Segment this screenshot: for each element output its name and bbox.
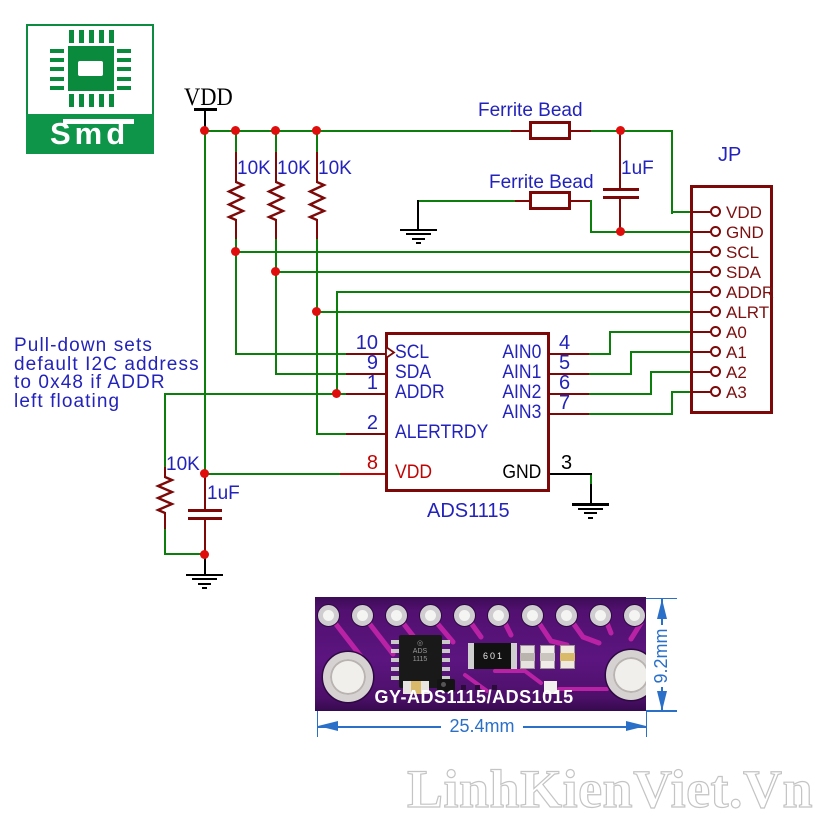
wire ALRT row to JP [316,311,691,313]
pcb traces [315,597,646,711]
JP pin A0 [693,331,711,333]
JP pin A1 [693,351,711,353]
pin holes row [318,605,339,626]
passive 2 [540,645,555,669]
junction dots [200,126,209,135]
main IC [391,640,400,644]
wire GND row to JP [590,231,691,233]
IC pin stubs right [550,353,589,355]
ground GND3 (IC gnd) [572,503,609,506]
wire AIN3 to A3 [589,413,673,415]
wire ADDR row to JP [336,291,691,293]
wire ADDR down to IC [336,291,338,395]
wire SDA row to JP [275,271,691,273]
label 10K R2 [277,159,311,178]
resistor R1 10K (SCL pullup) [235,130,237,154]
chip pins bottom [69,94,74,107]
wire AIN0 to A0 [589,353,611,355]
dimension 9.2mm [646,598,677,600]
PCB module photo [315,597,646,711]
silkscreen [375,688,591,707]
chip pins left [50,49,64,53]
JP pin ALRT [693,311,711,313]
resistor R3 10K (ALRT pullup) [316,130,318,154]
wire VDD drop to JP [671,130,673,214]
mounting hole left [323,652,373,702]
wire VDD pin JP horizontal [671,211,712,213]
connector JP [718,145,741,165]
wire ADDR left to pulldown [164,393,337,395]
IC pin stubs left [346,353,385,355]
VDD power symbol [184,85,233,110]
small black part [437,679,455,692]
wire AIN2 to A2 [589,393,652,395]
wire SDA down to IC [275,271,277,375]
note text [14,337,200,411]
dimension 25.4mm [317,711,319,737]
small dark dots [461,685,466,690]
IC pin names [395,343,429,363]
wire VDD pin8 row [204,473,342,475]
label 10K R4 [166,455,200,474]
JP pin SCL [693,251,711,253]
JP pin A2 [693,371,711,373]
JP pin A3 [693,391,711,393]
watermark [407,758,813,820]
GND pin stub black [550,473,592,475]
capacitor C2 1uF [207,484,240,503]
JP pin SDA [693,271,711,273]
small white parts under IC [403,681,429,694]
JP pin VDD [693,211,711,213]
wire VDD long vertical to pin8 row [204,130,206,475]
wire AIN1 to A1 [589,373,632,375]
wire SCL down to IC [235,251,237,355]
Smd wordmark [50,118,140,152]
wire VDD rail left [204,130,512,132]
wire VDD rail right of bead [590,130,673,132]
wire ALRT down to IC [316,311,318,435]
capacitor C1 1uF [621,159,654,178]
chip pins top [69,30,74,43]
ferrite bead FB1 [478,101,583,120]
label 10K R3 [318,159,352,178]
601 chip [468,643,517,669]
Smd logo [26,24,154,154]
white square [544,681,557,694]
ferrite bead FB2 [489,173,594,192]
chip body [68,46,114,91]
mounting hole right [606,650,656,700]
label 10K R1 [237,159,271,178]
passive 3 [560,645,575,669]
ground GND1 (top middle) [417,200,419,230]
ground GND2 (bottom left) [204,554,206,575]
wire SCL row to JP [235,251,691,253]
passive 1 [520,645,535,669]
IC pin numbers [356,333,378,353]
resistor R2 10K (SDA pullup) [275,130,277,154]
chip pins right [117,49,131,53]
JP pin GND [693,231,711,233]
JP pin ADDR [693,291,711,293]
resistor R4 10K (ADDR pulldown) [164,467,166,478]
SCL clock triangle [385,346,397,359]
IC U1 ADS1115 box [385,332,550,492]
